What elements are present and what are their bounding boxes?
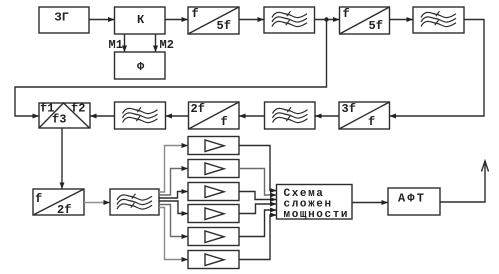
- wire mixer U3 down to multiplier U6: [61, 128, 63, 189]
- divider U5 2f to f: [189, 102, 240, 129]
- wire Z5 to amp A4: [159, 201, 188, 214]
- svg-text:f: f: [343, 7, 350, 21]
- block K (commutator): [115, 7, 166, 34]
- svg-text:ЗГ: ЗГ: [55, 11, 69, 25]
- block F (modulator): [115, 52, 166, 79]
- svg-text:М1: М1: [109, 38, 123, 52]
- wire amp A1 to combiner: [239, 146, 277, 191]
- svg-text:f: f: [35, 192, 42, 206]
- svg-text:мощности: мощности: [284, 209, 350, 221]
- mixer U3 f1 f2 f3: [39, 103, 90, 128]
- svg-text:f: f: [221, 115, 228, 129]
- wire Z5 to amp A6: [159, 208, 188, 260]
- wire U5 to Z3: [166, 115, 189, 117]
- multiplier U2 f to 5f: [340, 7, 390, 34]
- wire U4 to Z4: [315, 115, 339, 117]
- svg-text:2f: 2f: [191, 102, 205, 116]
- wire AFT to antenna: [440, 161, 485, 202]
- divider U4 3f to f: [339, 102, 390, 129]
- svg-text:К: К: [137, 13, 145, 27]
- wire feedback from node A to mixer U3: [15, 20, 327, 117]
- filter Z1: [264, 7, 315, 33]
- svg-text:f: f: [192, 7, 199, 21]
- svg-text:АФТ: АФТ: [398, 192, 426, 206]
- svg-text:М2: М2: [160, 38, 174, 52]
- wire Z5 to amp A3: [159, 192, 188, 199]
- svg-text:f: f: [368, 115, 375, 129]
- amplifier A4: [188, 205, 239, 223]
- wire U2 to filter Z2: [390, 19, 414, 21]
- amplifier A3: [188, 183, 239, 201]
- wire Z1 to multiplier U2: [315, 19, 340, 21]
- wire Z2 down right side to divider U4: [390, 20, 485, 117]
- wire amp A5 to combiner: [239, 210, 277, 237]
- block ZG (master oscillator): [39, 7, 89, 33]
- wire Z4 to U5: [239, 115, 265, 117]
- wire U6 to filter Z5: [84, 202, 110, 204]
- amplifier A6: [188, 251, 239, 269]
- filter Z3: [115, 102, 166, 129]
- svg-text:5f: 5f: [217, 19, 231, 33]
- amplifier A2: [188, 160, 239, 178]
- filter Z2: [413, 7, 464, 33]
- wire Z5 to amp A5: [159, 205, 188, 237]
- svg-text:5f: 5f: [369, 19, 383, 33]
- wire ZG to K: [89, 19, 115, 21]
- node junction A: [324, 17, 328, 21]
- svg-text:2f: 2f: [57, 203, 71, 217]
- svg-text:f2: f2: [71, 102, 85, 116]
- wire Z3 to mixer U3: [90, 115, 115, 117]
- block AFT (antenna feeder): [388, 188, 440, 215]
- wire amp A2 to combiner: [239, 169, 277, 196]
- multiplier U1 f to 5f: [188, 7, 239, 34]
- amplifier A1: [188, 137, 239, 155]
- wire amp A4 to combiner: [239, 204, 277, 214]
- svg-text:Ф: Ф: [137, 60, 145, 74]
- wire K to multiplier U1: [165, 19, 188, 21]
- wire K to F modulator input M1: [124, 34, 126, 52]
- block power combiner: [277, 185, 353, 220]
- filter Z4: [265, 102, 316, 129]
- filter Z5: [110, 189, 159, 215]
- wire U1 to filter Z1: [239, 19, 264, 21]
- wire Z5 to amp A1: [159, 146, 188, 193]
- wire combiner to AFT: [352, 202, 388, 204]
- amplifier A5: [188, 228, 239, 246]
- wire K to F modulator input M2: [155, 34, 157, 52]
- wire Z5 to amp A2: [159, 169, 188, 196]
- wire amp A3 to combiner: [239, 192, 277, 200]
- svg-text:3f: 3f: [342, 102, 356, 116]
- antenna arrow: [482, 161, 489, 172]
- svg-text:f3: f3: [52, 113, 66, 127]
- multiplier U6 f to 2f: [33, 189, 84, 215]
- wire amp A6 to combiner: [239, 215, 277, 260]
